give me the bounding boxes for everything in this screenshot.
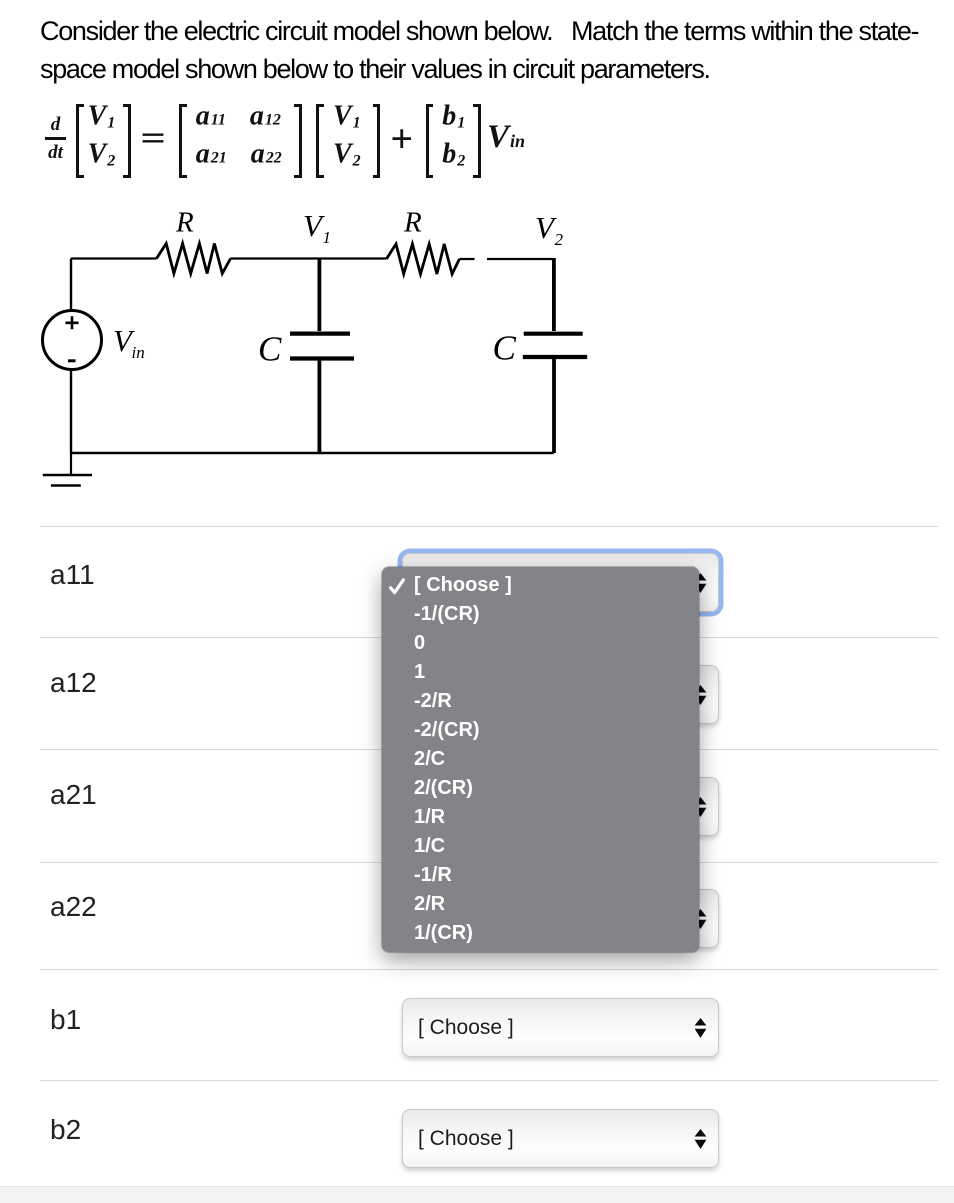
wire: R2 to node V2 corner (with break)	[459, 258, 553, 260]
plus terminal mark	[66, 316, 79, 329]
resistor R1	[157, 244, 231, 274]
svg-text:C: C	[258, 330, 282, 369]
svg-text:R: R	[403, 207, 422, 239]
capacitor C2	[523, 258, 587, 453]
row labels	[50, 559, 95, 591]
equation: d/dt fraction	[45, 115, 66, 162]
ground	[43, 453, 92, 486]
equation: B matrix	[426, 104, 482, 178]
circuit schematic	[0, 200, 650, 500]
wire: left vertical source leads	[70, 259, 72, 454]
resistor R2	[386, 244, 459, 274]
equation: equals	[140, 122, 166, 156]
minus terminal mark	[68, 359, 76, 362]
node V2 label	[535, 210, 564, 249]
footer strip	[0, 1186, 954, 1203]
selects (a11 focused)	[402, 553, 719, 612]
equation: Vin	[487, 121, 525, 154]
node V1 label	[303, 208, 331, 247]
voltage source Vin	[43, 311, 102, 370]
equation: plus	[390, 119, 413, 159]
svg-text:2: 2	[555, 230, 564, 249]
wire: top-left segment from source to R1	[71, 257, 157, 259]
dropdown menu	[382, 567, 699, 952]
row separators	[40, 526, 938, 527]
question text	[40, 13, 954, 88]
svg-text:R: R	[175, 207, 194, 239]
svg-text:1: 1	[323, 228, 332, 247]
svg-text:in: in	[132, 343, 145, 362]
wire: bottom return rail	[71, 452, 554, 454]
wire: R1 to R2 through node V1	[231, 257, 387, 259]
svg-text:C: C	[493, 329, 517, 368]
equation: A matrix	[179, 104, 302, 178]
source label Vin	[113, 323, 145, 362]
capacitor C1	[290, 259, 354, 453]
equation: matrix [V1;V2] #2	[316, 104, 380, 178]
equation: matrix [V1;V2]	[76, 104, 131, 178]
